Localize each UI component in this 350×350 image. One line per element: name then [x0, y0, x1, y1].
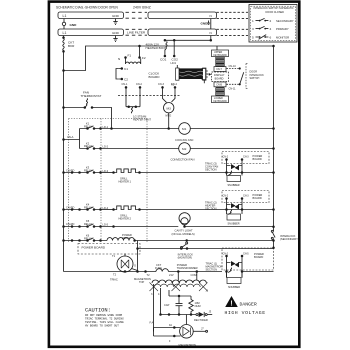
svg-text:SECTION: SECTION [205, 168, 217, 172]
triac Q3 [227, 257, 243, 278]
oven lamp stack [202, 50, 229, 103]
svg-text:SNUBBER: SNUBBER [228, 222, 240, 225]
svg-text:MONITOR: MONITOR [276, 35, 289, 39]
svg-text:HEATER BOX: HEATER BOX [146, 46, 166, 50]
neutral link wire [210, 19, 212, 41]
ground symbol (bus 2) [113, 36, 117, 42]
svg-text:RECTIFIER: RECTIFIER [194, 318, 208, 322]
wire heater2 to trunk [140, 209, 274, 211]
snubber R/C [227, 214, 241, 220]
svg-text:SECONDARY: SECONDARY [276, 19, 294, 23]
svg-text:CO2: CO2 [172, 57, 179, 61]
bus bar 1 right segment [148, 12, 217, 19]
connector side pins [202, 69, 206, 80]
wire neutral return [138, 248, 274, 250]
svg-text:1: 1 [252, 19, 254, 23]
svg-text:HEATER 1: HEATER 1 [119, 179, 132, 183]
interlock monitor switch [136, 239, 273, 271]
svg-text:CN-3: CN-3 [243, 195, 249, 198]
main triac T1 [110, 254, 138, 282]
svg-text:GND: GND [112, 14, 120, 18]
gnd drop fuse [63, 19, 65, 23]
power board 2 (heater triac) [205, 191, 269, 226]
svg-text:CN-T: CN-T [216, 68, 222, 71]
svg-text:BOARD: BOARD [149, 75, 161, 79]
border frame [49, 2, 299, 347]
svg-text:CONVECTION FAN: CONVECTION FAN [171, 158, 195, 162]
ribbon cable bottom [216, 88, 224, 96]
triac Q2 [227, 200, 243, 215]
wire HV feed [64, 263, 274, 284]
wire oven lamp feed [216, 46, 218, 50]
svg-text:CN-5: CN-5 [243, 253, 249, 256]
svg-text:COM: COM [191, 273, 197, 277]
svg-text:CN-2: CN-2 [223, 156, 229, 159]
svg-text:DANGER: DANGER [240, 302, 257, 308]
svg-text:THERMOSTAT: THERMOSTAT [81, 94, 102, 98]
svg-text:GND: GND [112, 31, 120, 35]
svg-text:LD-9: LD-9 [171, 62, 177, 65]
wire K6 to trunk [135, 240, 274, 242]
svg-text:BOARD: BOARD [215, 77, 224, 80]
bus bar 2 dashed gap [126, 29, 148, 35]
svg-text:!: ! [230, 301, 232, 308]
svg-text:SWITCH: SWITCH [250, 77, 260, 80]
svg-text:FA: FA [169, 324, 172, 327]
svg-text:CN-2: CN-2 [223, 253, 229, 256]
ground symbol (bus 1) [113, 19, 117, 25]
svg-text:CN-RD: CN-RD [66, 222, 74, 226]
svg-text:SECTION: SECTION [205, 207, 217, 211]
wire to convection fan [101, 148, 179, 150]
svg-text:L1: L1 [63, 31, 67, 35]
svg-text:BOARD: BOARD [253, 196, 262, 200]
svg-text:(ON ALL MODELS): (ON ALL MODELS) [172, 232, 195, 236]
core crossings [150, 283, 208, 292]
svg-text:CN-4: CN-4 [171, 83, 177, 86]
svg-text:LD-2: LD-2 [103, 144, 109, 148]
heating element (braided) [171, 62, 211, 87]
bus bar 2 right segment [148, 29, 217, 36]
svg-text:CN-RD: CN-RD [66, 205, 74, 209]
svg-text:G: G [134, 264, 136, 268]
relay K2 [80, 141, 179, 149]
svg-text:2: 2 [270, 19, 272, 23]
svg-text:(MONITOR): (MONITOR) [178, 255, 193, 259]
svg-text:CN-10: CN-10 [229, 65, 237, 68]
right trunk wire [272, 45, 275, 231]
wire to top rail [64, 46, 274, 71]
svg-text:F.A.: F.A. [150, 321, 155, 325]
control board dashed outline [69, 119, 147, 243]
svg-text:LINE FILTER: LINE FILTER [127, 31, 146, 35]
convection fan M2 [171, 143, 274, 162]
heater element 2 [112, 208, 115, 211]
svg-text:SECTION: SECTION [206, 268, 218, 272]
wire L1 trunk [63, 36, 65, 272]
bus bar L1 (bottom left segment) [58, 29, 124, 36]
svg-text:CAP: CAP [164, 303, 170, 307]
svg-text:RELAY: RELAY [84, 206, 93, 210]
svg-text:CN-A: CN-A [67, 135, 74, 139]
svg-text:SNUBBER: SNUBBER [228, 286, 240, 289]
svg-text:CAUTION:: CAUTION: [85, 308, 111, 314]
svg-text:C1: C1 [124, 67, 128, 71]
svg-text:N: N [210, 14, 212, 18]
dashed bus extensions [217, 12, 249, 35]
circuit breaker CB [62, 36, 65, 39]
svg-text:PRIMARY: PRIMARY [276, 27, 289, 31]
svg-text:CN-B: CN-B [216, 84, 222, 87]
wire to cavity lamp [101, 226, 179, 228]
bus bar L1 (top left segment) [58, 12, 124, 19]
svg-text:GND: GND [201, 22, 209, 26]
interlock secondary switch [271, 230, 299, 249]
heater box thermostat legs [146, 39, 218, 61]
primary winding [152, 280, 206, 283]
relay K6 power relay [62, 233, 273, 242]
display board U1 [212, 72, 229, 82]
HV rectifier diode [159, 310, 212, 323]
power board 1 (convection triac) [205, 152, 269, 187]
svg-text:5: 5 [252, 35, 254, 39]
magnetron [150, 315, 208, 348]
filter capacitor [116, 69, 118, 80]
danger warning triangle [225, 296, 266, 316]
bleed resistor [189, 296, 201, 315]
svg-text:HIGH VOLTAGE: HIGH VOLTAGE [225, 310, 266, 316]
svg-text:BKR: BKR [68, 44, 75, 48]
HV capacitor [154, 284, 192, 332]
svg-text:HEATER VENT: HEATER VENT [133, 117, 151, 121]
caution text block [85, 308, 124, 328]
svg-text:(SECONDARY): (SECONDARY) [280, 237, 299, 241]
filter coil [126, 59, 141, 65]
svg-text:HV BOARD TO SHORT OUT: HV BOARD TO SHORT OUT [85, 325, 119, 328]
svg-text:BOARD: BOARD [253, 157, 262, 161]
svg-text:F1: F1 [128, 54, 132, 58]
svg-text:CN-2: CN-2 [223, 195, 229, 198]
svg-text:SNUBBER: SNUBBER [228, 184, 240, 187]
svg-text:N: N [118, 57, 120, 61]
power transformer [150, 263, 209, 296]
relay K1 [62, 122, 178, 149]
svg-text:RELAY: RELAY [84, 237, 93, 241]
svg-text:KEYBOARD: KEYBOARD [213, 54, 227, 57]
power board 3 (magnetron triac) [206, 248, 274, 289]
svg-text:M1: M1 [182, 127, 187, 131]
svg-text:3: 3 [252, 27, 254, 31]
interlock legend box [249, 5, 297, 43]
svg-text:M2: M2 [182, 147, 187, 151]
connector CN-T [214, 67, 226, 72]
svg-text:CN-2: CN-2 [136, 83, 142, 86]
relay K3 [62, 166, 273, 184]
bus bar 1 dashed gap [126, 12, 148, 18]
svg-text:6: 6 [270, 35, 272, 39]
svg-text:CN-1: CN-1 [122, 83, 128, 86]
wire to cooling fan [101, 128, 179, 130]
svg-text:HEATER 2: HEATER 2 [119, 216, 132, 220]
svg-text:21V: 21V [169, 273, 174, 277]
svg-text:F2: F2 [142, 56, 146, 60]
line filter block [116, 45, 160, 82]
svg-text:RELAY: RELAY [84, 144, 93, 148]
turntable motor M3 [163, 88, 176, 129]
svg-text:OHM: OHM [195, 304, 201, 308]
triac Q1 [227, 161, 243, 176]
fan thermostat [62, 91, 113, 130]
svg-text:RELAY: RELAY [84, 125, 93, 129]
heater element 1 [112, 171, 115, 174]
svg-text:CN-3: CN-3 [158, 83, 164, 86]
wire heater1 to trunk [140, 172, 274, 174]
svg-text:KEYBOARD: KEYBOARD [213, 100, 227, 103]
svg-text:4: 4 [270, 27, 272, 31]
svg-text:TOP: TOP [139, 280, 145, 284]
control connector row [118, 83, 180, 96]
svg-text:CO1: CO1 [160, 57, 167, 61]
svg-text:GND: GND [70, 23, 78, 27]
svg-text:RELAY: RELAY [84, 169, 93, 173]
svg-text:MAGNETRON: MAGNETRON [179, 343, 197, 347]
svg-text:BOARD: BOARD [254, 255, 263, 259]
svg-text:CAVITY LIGHT: CAVITY LIGHT [175, 228, 193, 232]
svg-text:LD-5: LD-5 [103, 222, 109, 226]
svg-text:N: N [210, 31, 212, 35]
ribbon cable top [216, 57, 224, 66]
svg-text:COOLING FAN: COOLING FAN [175, 138, 193, 142]
snubber R/C [227, 278, 241, 284]
svg-text:CN-11: CN-11 [229, 88, 237, 91]
door interlock switch (display) [227, 64, 265, 91]
svg-text:SCHEMATIC DIAG.-SHOWN DOOR OPE: SCHEMATIC DIAG.-SHOWN DOOR OPEN [56, 6, 118, 10]
svg-text:240V 60HZ: 240V 60HZ [133, 5, 152, 9]
svg-text:CN-3: CN-3 [243, 156, 249, 159]
snubber R/C [227, 176, 241, 182]
relay K5 [62, 219, 178, 228]
svg-text:TRIAC: TRIAC [110, 278, 118, 282]
cooling fan M1 [175, 123, 274, 142]
svg-text:CN-RD: CN-RD [66, 168, 74, 172]
connector CN-B [214, 82, 226, 87]
cavity lamp [172, 213, 274, 236]
svg-text:TRANSFORMER: TRANSFORMER [177, 266, 198, 270]
svg-text:C2: C2 [124, 78, 128, 82]
relay K4 [62, 203, 273, 221]
power board label box [78, 244, 140, 255]
svg-text:L1: L1 [63, 14, 67, 18]
svg-text:M3: M3 [167, 106, 172, 110]
svg-text:POWER BOARD: POWER BOARD [82, 245, 106, 249]
svg-text:DOOR CLOSED: DOOR CLOSED [266, 11, 285, 14]
svg-text:RELAY: RELAY [84, 222, 93, 226]
svg-text:INTERLOCK SWITCH SCHEMATIC: INTERLOCK SWITCH SCHEMATIC [254, 7, 294, 10]
vent thermostat [126, 88, 151, 121]
